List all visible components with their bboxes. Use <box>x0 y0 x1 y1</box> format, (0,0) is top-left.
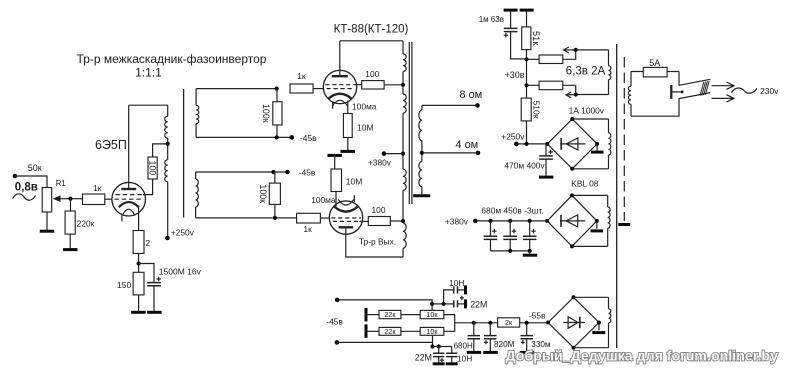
node cap bus 2 <box>528 249 532 253</box>
svg-text:0,8в: 0,8в <box>15 182 38 194</box>
plus mark 680м #3 <box>531 229 535 233</box>
wire bias upper rail <box>337 300 432 304</box>
capacitor 330м <box>521 336 533 339</box>
node OPT center tap <box>401 152 405 156</box>
wire to 220k <box>70 199 72 211</box>
wire filter cap bus <box>491 250 530 252</box>
bridge rectifier KBL 08 <box>547 195 597 246</box>
node switch contact <box>681 90 684 93</box>
plus mark 820М <box>484 340 488 344</box>
OPT secondary winding <box>421 105 423 110</box>
svg-text:22М: 22М <box>415 352 432 362</box>
svg-text:100к: 100к <box>258 184 268 203</box>
tetrode V3 KT-88 lower envelope <box>329 201 362 234</box>
wire bridge1 to ground <box>596 144 598 151</box>
wire 4 ом rail <box>422 152 478 154</box>
wire V1 anode to primary top <box>129 104 168 106</box>
node OPT tap A <box>401 83 405 87</box>
wire to 22М bottom <box>438 347 440 354</box>
wire bridge3 to winding top <box>574 296 609 298</box>
ground core screen <box>618 223 630 226</box>
switch button <box>670 85 672 99</box>
heater arrow lower <box>566 94 576 96</box>
ground 51к <box>520 9 534 12</box>
V3 grid dashes <box>331 218 361 221</box>
R1 wiper arrow <box>59 198 71 200</box>
V1 heater arch <box>123 209 135 214</box>
wire to 10Н bottom <box>451 347 453 354</box>
wire node to cap 1500M <box>139 264 154 283</box>
svg-text:51к: 51к <box>531 31 541 46</box>
wire 10M A to ground <box>347 138 349 151</box>
wire rail to cap branch <box>432 303 444 305</box>
wire cathode node <box>138 253 140 272</box>
capacitor 1500М 16v <box>147 283 161 286</box>
AC source squiggle <box>13 194 36 200</box>
wire 680Н to ground <box>473 339 475 352</box>
wire cap to ground <box>153 286 155 312</box>
V2 heater stub <box>332 102 334 109</box>
wire winding to bridge2 bottom <box>572 245 608 247</box>
wire 22М bottom to ground <box>438 357 440 363</box>
V2 grid dashes <box>325 85 355 89</box>
wire heater top <box>576 49 609 51</box>
node -45в terminal B <box>285 170 290 175</box>
wire center tap to +380v <box>384 153 403 155</box>
wire to filter cap 2 <box>509 221 511 236</box>
wire humdinger upper to heater leg <box>563 50 576 59</box>
wire 100k A to rail <box>276 125 278 137</box>
V3 heater stub <box>353 195 355 202</box>
wire wiper to 1k <box>71 198 83 200</box>
svg-text:100: 100 <box>365 69 379 79</box>
winding bias <box>608 297 610 309</box>
wire fuse to switch <box>678 72 680 86</box>
svg-text:1500М 16v: 1500М 16v <box>159 267 202 277</box>
resistor 51к <box>522 27 531 50</box>
potentiometer bar lower <box>365 324 368 338</box>
node filter cap 3 <box>528 219 532 223</box>
node wiper junction <box>68 197 72 201</box>
capacitor 22М top <box>454 300 458 307</box>
resistor 22к upper <box>379 310 401 318</box>
node heater leg lower <box>574 92 578 96</box>
svg-text:100к: 100к <box>261 104 271 123</box>
bridge rectifier bias <box>548 297 599 347</box>
svg-text:5А: 5А <box>649 58 660 68</box>
wire to 100k A <box>276 89 278 102</box>
wire node to humdinger R upper <box>527 58 540 60</box>
capacitor 10Н top <box>454 286 458 293</box>
V3 anode bar <box>339 226 354 228</box>
wire 330м to ground <box>526 339 528 352</box>
plus mark 1500M <box>157 277 161 281</box>
svg-text:510к: 510к <box>532 100 542 118</box>
wire bus to ground <box>529 251 531 254</box>
capacitor 680Н <box>468 336 480 339</box>
svg-text:1к: 1к <box>93 183 102 193</box>
plus mark 680м #1 <box>492 229 496 233</box>
node grid rail B <box>273 216 277 220</box>
winding HV1 <box>608 119 610 133</box>
wire 150 to ground <box>138 295 140 311</box>
wire secondary A bottom rail <box>196 136 292 138</box>
node primary tap <box>166 142 170 146</box>
wire 1k to V2 grid <box>313 88 324 90</box>
interstage secondary B winding <box>195 172 197 179</box>
ground R1 <box>40 230 55 233</box>
wire winding to bridge1 bottom <box>572 168 608 170</box>
node +250v terminal <box>514 142 519 147</box>
wire to 22М cap <box>444 303 454 305</box>
ground 470м <box>539 176 554 179</box>
node 680Н <box>472 321 476 325</box>
node 820М <box>488 321 492 325</box>
svg-text:220к: 220к <box>77 218 95 228</box>
potentiometer bar upper <box>365 308 368 322</box>
wire +380v rail <box>475 220 547 222</box>
node 510к junction <box>524 142 528 146</box>
wire 10к pair join <box>444 315 455 332</box>
svg-text:10М: 10М <box>346 177 363 187</box>
resistor 1к input <box>83 194 105 205</box>
ground 22М top <box>464 299 467 308</box>
node -55в <box>525 321 529 325</box>
resistor humdinger upper <box>539 55 563 64</box>
ground 680Н <box>467 351 482 354</box>
ground cathode A <box>341 150 356 153</box>
node 8 ом terminal <box>475 103 480 108</box>
resistor humdinger lower <box>539 81 563 90</box>
wire screen resistor to transformer tap <box>153 144 168 157</box>
wire 2к to bridge3 <box>520 322 549 324</box>
ground 22М bottom <box>433 362 445 365</box>
stub 10к lower to mini bus <box>432 335 434 346</box>
svg-text:1к: 1к <box>303 224 312 234</box>
wire 22М to ground bar <box>458 303 465 305</box>
svg-text:100: 100 <box>148 161 158 176</box>
wire screen B to OPT tap <box>390 220 403 222</box>
wire winding to bridge3 bottom <box>574 347 609 349</box>
capacitor 680м #1 <box>484 236 498 239</box>
wire bridge2 to winding top <box>572 194 608 196</box>
capacitor 10Н bottom <box>446 353 457 356</box>
svg-text:-55в: -55в <box>529 311 546 321</box>
resistor 100к B <box>269 183 280 204</box>
wire bridge3 to ground <box>598 323 600 331</box>
resistor 100к A <box>273 102 282 125</box>
svg-text:+30в: +30в <box>505 70 525 80</box>
stub rail to 10к upper <box>431 304 433 311</box>
node filter cap 2 <box>508 219 512 223</box>
svg-text:6,3в 2А: 6,3в 2А <box>566 65 606 77</box>
wire V2 anode to OPT top <box>340 40 403 42</box>
V2 anode bar <box>332 75 348 77</box>
wire humdinger lower to heater leg <box>563 85 576 94</box>
OPT primary winding <box>402 41 404 54</box>
plus mark 22М bottom <box>440 358 444 362</box>
resistor 10М A <box>343 114 352 138</box>
V3 screen wire <box>359 220 368 222</box>
ground 10Н top <box>464 285 467 294</box>
node grid rail A <box>275 87 279 91</box>
svg-text:10Н: 10Н <box>449 278 464 288</box>
svg-text:1А 1000v: 1А 1000v <box>569 105 605 115</box>
node bias out upper <box>335 298 340 303</box>
svg-text:+250v: +250v <box>171 228 195 238</box>
capacitor 470м 400v <box>539 156 553 159</box>
node cap branch A <box>442 302 446 306</box>
node cap bus 1 <box>508 249 512 253</box>
svg-text:4 ом: 4 ом <box>455 139 478 151</box>
tetrode V2 KT-88 upper envelope <box>323 70 356 103</box>
wire 1k to V3 grid <box>320 217 329 219</box>
svg-text:KBL 08: KBL 08 <box>571 179 599 189</box>
wire to filter cap 3 <box>529 221 531 236</box>
V3 heater arch <box>338 199 353 205</box>
V1 grid dashes <box>115 195 144 200</box>
node cathode <box>137 261 141 265</box>
wire secondary A top rail to grid <box>196 88 277 90</box>
wire R1 to ground <box>46 212 48 230</box>
wire to 680Н cap <box>473 323 475 336</box>
svg-text:-45в: -45в <box>299 168 316 178</box>
node heater leg upper <box>574 48 578 52</box>
wire 1м cap to node <box>511 32 527 59</box>
wire heater bottom <box>576 94 609 96</box>
wire 22к to 10к lower <box>401 330 420 332</box>
fuse 5А <box>643 67 667 77</box>
svg-text:6Э5П: 6Э5П <box>95 138 127 152</box>
wire 100k B to rail <box>274 204 276 218</box>
V2 cathode lead <box>347 101 349 114</box>
node +250v terminal <box>165 236 170 241</box>
wire fuse <box>631 71 679 73</box>
svg-text:22к: 22к <box>384 310 396 319</box>
plus mark 22М top <box>460 296 464 300</box>
arrow mains upper <box>712 82 734 89</box>
node mini bus B <box>437 344 441 348</box>
ground OPT secondary <box>413 194 430 197</box>
ground 1500M cap <box>147 311 162 314</box>
ground 10Н bottom <box>446 362 458 365</box>
svg-text:1м 63в: 1м 63в <box>479 15 504 24</box>
wire node to humdinger R lower <box>527 84 540 86</box>
V2 cathode arc <box>328 94 351 99</box>
resistor 2к <box>498 318 520 327</box>
winding 6,3в 2А <box>608 50 610 66</box>
wire bridge1 to winding top <box>572 118 608 120</box>
node +30в lower <box>524 83 528 87</box>
V1 anode lead up <box>128 105 130 189</box>
wire to 100k B <box>274 172 276 183</box>
svg-text:10М: 10М <box>357 123 374 133</box>
V1 cathode lead <box>138 206 140 231</box>
wire bus to 2к <box>474 322 498 324</box>
ground bridge3 <box>592 331 605 334</box>
wire 51к to 510к chain <box>526 50 528 99</box>
power transformer core screen dashed <box>623 57 625 221</box>
wire bias lower rail <box>337 341 433 343</box>
plug hatching <box>700 81 709 96</box>
interstage secondary A winding <box>195 89 197 106</box>
svg-text:2к: 2к <box>505 318 513 327</box>
switch lever lower <box>679 93 710 99</box>
wire 820М to ground <box>489 339 491 352</box>
plus mark 1м <box>504 33 508 37</box>
power transformer core solid <box>616 44 618 348</box>
svg-text:-45в: -45в <box>326 317 343 327</box>
ground bridge2 <box>591 229 604 232</box>
node -45в terminal A <box>290 135 295 140</box>
node filter cap 1 <box>488 219 492 223</box>
node bias rail A <box>430 302 434 306</box>
bridge rectifier 1А 1000v <box>547 119 597 169</box>
resistor 100 screen B <box>368 217 390 226</box>
capacitor 1м 63в <box>504 28 518 31</box>
svg-text:+250v: +250v <box>501 132 525 142</box>
node +380v terminal <box>382 151 387 156</box>
V2 heater arch <box>332 100 347 106</box>
node input terminal <box>13 174 18 179</box>
resistor 22к lower <box>379 327 401 335</box>
V1 anode bar <box>121 188 136 190</box>
wire 8 ом rail <box>422 104 478 106</box>
plus mark 330м <box>521 340 525 344</box>
V2 anode lead <box>339 41 341 76</box>
node OPT tap B <box>401 219 405 223</box>
wire to 330м cap <box>526 323 528 336</box>
OPT core <box>409 42 412 204</box>
svg-text:680Н: 680Н <box>454 341 473 350</box>
node 4 ом terminal <box>476 151 481 156</box>
svg-text:22к: 22к <box>384 327 396 336</box>
V1 screen tap wire <box>143 179 153 195</box>
V3 cathode lead <box>335 192 337 207</box>
potentiometer R1 <box>42 188 52 213</box>
switch lever upper <box>679 79 710 85</box>
node +30в upper <box>524 57 528 61</box>
ground filter bank <box>523 254 538 257</box>
capacitor 680м #3 <box>523 236 537 239</box>
wire secondary B top rail <box>196 171 288 173</box>
svg-text:100ма: 100ма <box>352 102 377 112</box>
svg-text:8 ом: 8 ом <box>459 89 482 101</box>
winding 230v primary <box>630 72 632 87</box>
wire 22к to 10к upper <box>401 314 420 316</box>
resistor 510к <box>521 98 531 121</box>
node 4 ом tap <box>420 151 424 155</box>
V3 cathode arc <box>334 207 357 212</box>
wire 10Н to ground bar <box>458 289 465 291</box>
interstage core <box>183 89 185 218</box>
ground cathode B <box>327 154 342 157</box>
resistor 100 screen A <box>362 81 384 89</box>
resistor 2 cathode <box>133 231 144 254</box>
wire bridge1 minus to cap 470м <box>545 144 547 156</box>
plus mark 470м <box>548 150 552 154</box>
svg-text:470м 400v: 470м 400v <box>504 161 545 171</box>
resistor 150 <box>133 272 144 295</box>
svg-text:150: 150 <box>117 280 131 290</box>
wire return to primary <box>631 99 679 117</box>
resistor 10к upper <box>420 310 444 318</box>
svg-text:680м 450в -3шт.: 680м 450в -3шт. <box>481 206 543 216</box>
svg-text:22М: 22М <box>470 299 487 309</box>
resistor 10к lower <box>420 327 444 335</box>
svg-text:10к: 10к <box>426 310 438 319</box>
plus mark 680м #2 <box>512 229 516 233</box>
V1 cathode arc <box>119 202 139 207</box>
winding HV2 <box>607 195 609 207</box>
wire pot to 22к upper <box>367 314 379 316</box>
node 100k A bottom <box>275 135 279 139</box>
svg-text:50к: 50к <box>28 163 42 173</box>
capacitor 680м #2 <box>503 236 517 239</box>
capacitor 820М <box>484 336 496 339</box>
capacitor 22М bottom <box>433 353 444 356</box>
wire 510к to +250v rail <box>526 121 528 144</box>
svg-text:-45в: -45в <box>300 133 317 143</box>
AC squiggle 230v <box>732 88 758 93</box>
ground 330м <box>520 351 535 354</box>
ground top cap 1м <box>504 9 518 12</box>
svg-text:Тр-р Вых.: Тр-р Вых. <box>359 237 396 247</box>
node mini bus A <box>430 344 434 348</box>
svg-text:Добрый_Дедушка для forum.onlin: Добрый_Дедушка для forum.onliner.by <box>506 349 779 365</box>
svg-text:1к: 1к <box>297 71 306 81</box>
wire mini bus <box>433 346 452 348</box>
V2 screen wire <box>355 84 362 86</box>
svg-text:100: 100 <box>372 205 386 215</box>
wire +250v rail <box>516 143 547 145</box>
svg-text:КТ-88(КТ-120): КТ-88(КТ-120) <box>334 24 409 36</box>
wire filter cap 2 to bus <box>509 239 511 251</box>
svg-text:2: 2 <box>145 238 150 248</box>
V3 anode lead to OPT bottom <box>346 227 403 257</box>
heater arrow upper <box>564 49 576 51</box>
wire input to R1 <box>15 176 47 188</box>
svg-text:R1: R1 <box>56 179 66 188</box>
wire pot to 22к lower <box>367 330 379 332</box>
triode V1 6Э5П envelope <box>112 182 146 216</box>
wire screen A to OPT tap <box>384 84 403 86</box>
resistor 100 screen V1 <box>148 157 157 179</box>
wire 10Н bottom to ground <box>451 357 453 363</box>
wire filter cap 3 to bus <box>529 239 531 251</box>
wire secondary B bottom rail to grid <box>196 217 297 219</box>
svg-text:230v: 230v <box>760 86 779 96</box>
svg-text:10к: 10к <box>426 327 438 336</box>
wire filter cap 1 to bus <box>490 239 492 251</box>
svg-text:+380v: +380v <box>368 157 392 167</box>
wire 1k to grid V1 <box>105 198 112 200</box>
wire 220k to ground <box>69 234 71 249</box>
svg-text:1:1:1: 1:1:1 <box>135 66 162 80</box>
ground 820М <box>483 351 498 354</box>
resistor 220к <box>65 211 75 234</box>
svg-text:10Н: 10Н <box>457 354 472 364</box>
svg-text:Тр-р межкаскадник-фазоинвертор: Тр-р межкаскадник-фазоинвертор <box>77 52 267 66</box>
ground 220к <box>63 248 77 251</box>
node 100k B top <box>271 170 275 174</box>
interstage primary winding <box>167 105 169 116</box>
wire to 820М cap <box>489 323 491 336</box>
node bias out lower <box>335 340 340 345</box>
ground cathode resistor <box>131 311 146 314</box>
svg-text:100ма: 100ма <box>311 195 336 205</box>
arrow mains lower <box>712 95 734 102</box>
